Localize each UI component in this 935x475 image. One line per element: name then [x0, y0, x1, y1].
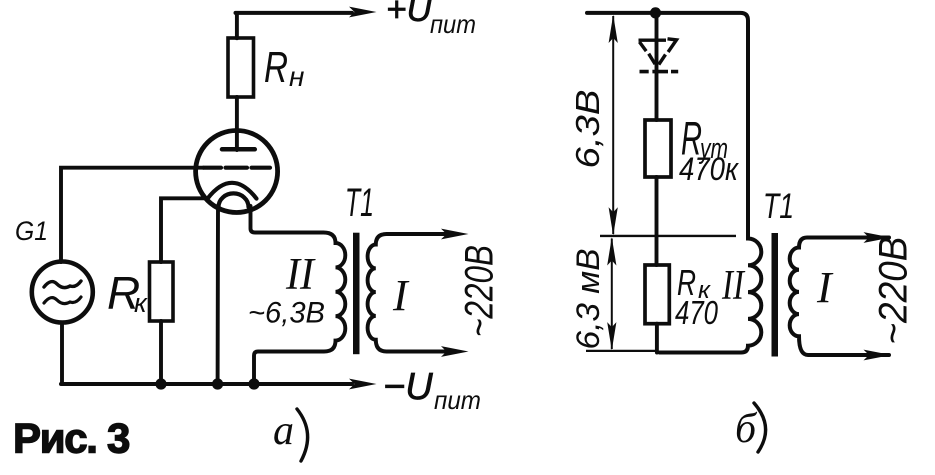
junction dot rail a 1 — [155, 378, 166, 389]
resistor Rk (a) — [150, 262, 174, 321]
G1 sine squiggle lower — [44, 297, 81, 304]
junction dot rail a 2 — [212, 378, 223, 389]
svg-text:6,3 мВ: 6,3 мВ — [570, 249, 606, 350]
svg-text:пит: пит — [434, 385, 481, 415]
dim line 6,3mV — [611, 239, 613, 350]
svg-text:~220В: ~220В — [458, 245, 502, 337]
svg-text:I: I — [392, 271, 410, 320]
svg-text:н: н — [289, 61, 304, 92]
wire: Rut to Rk (b) — [655, 177, 659, 265]
diode cathode bar (dashed) — [640, 70, 679, 74]
wire: diode branch upper — [655, 13, 659, 120]
svg-text:~6,3В: ~6,3В — [248, 297, 325, 330]
diode (dashed) triangle top edge — [639, 39, 667, 42]
tube grid (dashed) — [204, 166, 271, 170]
wire: Rk (b) bottom lead — [655, 324, 659, 353]
wire: heater left leg to bottom rail — [216, 206, 220, 384]
svg-text:б: б — [735, 406, 758, 452]
dim arrow up 6,3V — [609, 15, 618, 43]
svg-text:6,3В: 6,3В — [569, 90, 606, 169]
tube cathode arc — [208, 183, 257, 199]
svg-text:R: R — [264, 43, 288, 92]
svg-text:470: 470 — [675, 294, 719, 331]
arrow winding I bottom (a) — [441, 346, 469, 357]
svg-text:T1: T1 — [345, 181, 374, 225]
wire: Rk bottom lead — [159, 321, 163, 384]
svg-text:пит: пит — [430, 9, 476, 39]
core T1 (b) — [772, 233, 779, 357]
wire: Rn bottom lead to tube anode — [235, 97, 239, 150]
wire: G1 bottom lead — [60, 323, 64, 385]
svg-text:G1: G1 — [15, 216, 48, 246]
svg-text:II: II — [285, 249, 316, 299]
dim arrow up 6,3mV — [607, 237, 616, 265]
wire: Rn top lead — [235, 13, 239, 38]
arrow -Upit — [349, 379, 377, 390]
dim line 6,3V — [612, 16, 614, 234]
winding I of T1 (b) — [790, 238, 889, 356]
arrow +Upit — [349, 7, 377, 18]
G1 sine squiggle upper — [44, 281, 81, 288]
middle reference line — [600, 235, 736, 237]
svg-text:Рис. 3: Рис. 3 — [13, 415, 129, 462]
diode left side dashes — [639, 42, 655, 64]
svg-text:+U: +U — [386, 0, 432, 29]
wire: +U rail circuit a — [236, 11, 353, 15]
dim arrow down 6,3V — [609, 207, 618, 235]
svg-text:II: II — [721, 263, 745, 309]
wire: cathode to Rk — [161, 198, 208, 262]
resistor Rk (b) — [645, 265, 669, 324]
wire: bottom rail circuit a — [61, 382, 352, 386]
winding I of T1 (a) — [368, 234, 450, 352]
svg-text:T1: T1 — [763, 187, 794, 226]
wire+winding II of T1 (a) — [251, 206, 346, 384]
arrow winding I top (b) — [864, 232, 892, 243]
arrow winding I bottom (b) — [864, 350, 892, 361]
svg-text:−U: −U — [383, 366, 433, 408]
core T1 (a) — [353, 233, 360, 355]
arrow winding I top (a) — [441, 229, 469, 240]
junction dot rail a 3 — [248, 378, 259, 389]
diode flag stroke — [668, 39, 677, 52]
junction dot top rail b — [650, 7, 661, 18]
tube heater dome — [219, 193, 249, 207]
tube anode bar — [222, 147, 255, 152]
svg-text:а: а — [273, 408, 294, 454]
svg-text:~220В: ~220В — [872, 237, 916, 345]
diode right side dash — [659, 55, 666, 65]
svg-text:к: к — [134, 288, 148, 318]
wire: grid to G1 — [61, 168, 203, 262]
resistor Rut — [645, 120, 671, 177]
resistor Rn — [228, 38, 254, 97]
svg-text:I: I — [816, 263, 834, 312]
tube V1 envelope — [196, 131, 278, 213]
generator G1 circle — [32, 262, 93, 323]
svg-text:470к: 470к — [679, 151, 740, 187]
wire: top rail + right drop + winding II of T1 (b) — [587, 13, 761, 353]
bottom tick (b) — [586, 350, 658, 352]
dim arrow down 6,3mV — [607, 322, 616, 350]
